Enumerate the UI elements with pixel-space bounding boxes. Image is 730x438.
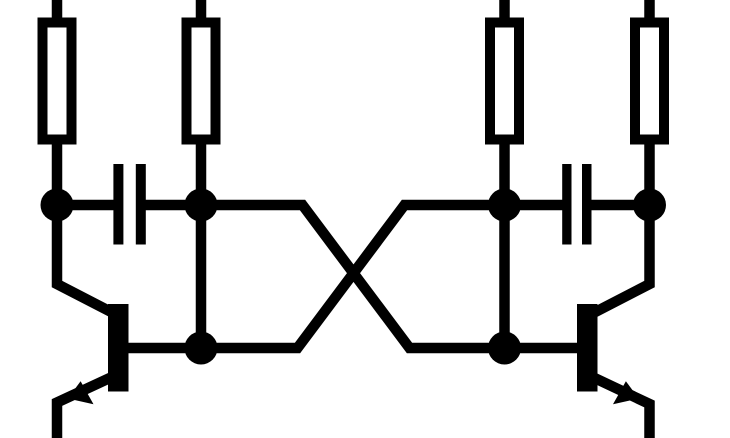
wire node B to node E [196, 205, 207, 348]
wire cross-coupling node B to node F [201, 205, 505, 348]
resistor R2 [187, 23, 216, 140]
resistor R3 [490, 23, 519, 140]
wire collector of Q1 from node A [57, 205, 116, 315]
node D [633, 189, 666, 222]
wire R2 bottom to node B [196, 139, 207, 205]
transistor Q2 [577, 304, 650, 438]
node A [41, 189, 74, 222]
wire node C to capacitor C2 [505, 200, 564, 211]
wire base of Q1 to node E [120, 343, 201, 354]
wire R4 bottom to node D [644, 139, 655, 205]
node F [488, 332, 521, 365]
wire capacitor C1 to node B [144, 200, 201, 211]
resistor R1 [43, 23, 72, 140]
wire top stub of R1 [52, 0, 63, 24]
wire node C to node F [499, 205, 510, 348]
node E [185, 332, 218, 365]
node C [488, 189, 521, 222]
wire R1 bottom to node A [52, 139, 63, 205]
wire base of Q2 from node F [505, 343, 587, 354]
node B [185, 189, 218, 222]
transistor Q1 [57, 304, 129, 438]
wire top stub of R3 [499, 0, 510, 24]
capacitor C1 [113, 164, 145, 245]
capacitor C2 [562, 164, 591, 245]
resistor R4 [635, 23, 664, 140]
wire R3 bottom to node C [499, 139, 510, 205]
wire top stub of R4 [644, 0, 655, 24]
wire capacitor C2 to node D [590, 200, 650, 211]
wire node A to capacitor C1 [57, 200, 115, 211]
wire cross-coupling node C to node E [201, 205, 505, 348]
wire collector of Q2 from node D [591, 205, 650, 315]
wire top stub of R2 [196, 0, 207, 24]
